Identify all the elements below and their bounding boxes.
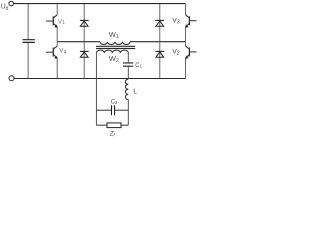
svg-text:V1: V1 [58, 18, 65, 26]
wire mid rail right [130, 41, 186, 43]
inductor L [125, 79, 128, 99]
svg-text:C1: C1 [135, 63, 142, 69]
transformer winding W1 (primary, scallops down) [100, 42, 130, 45]
capacitor Cd plates [23, 40, 35, 43]
diode D1 (V1 antiparallel) lead [83, 4, 85, 42]
diode D1 triangle [80, 21, 88, 26]
capacitor C2 plates [112, 105, 115, 115]
transformer core [96, 46, 135, 48]
svg-text:Ud: Ud [1, 4, 9, 12]
diode D2 (V2 antiparallel) lead [159, 42, 161, 79]
wire bottom rail [14, 78, 185, 80]
svg-text:V3: V3 [172, 18, 179, 26]
transistor V1 [46, 4, 58, 42]
svg-text:L: L [133, 88, 137, 95]
wire resistor branch right [121, 124, 128, 126]
diode D2 triangle [156, 52, 164, 57]
svg-text:V4: V4 [59, 48, 66, 56]
wire W2 right end down to C1 [127, 53, 129, 63]
wire C2 branch right [115, 109, 129, 111]
wire resistor branch left [96, 124, 107, 126]
terminal - (bottom input terminal) [9, 76, 14, 81]
wire top rail [14, 3, 186, 5]
capacitor C1 plates [123, 63, 133, 66]
diode D3 cathode bar [155, 19, 164, 21]
wire mid rail left (bridge output node A) [57, 41, 100, 43]
diode D4 cathode bar [80, 50, 89, 52]
transistor V3 (mirrored) [185, 4, 197, 42]
diode D1 cathode bar [80, 19, 89, 21]
wire inductor bottom to loop right column [127, 100, 129, 126]
capacitor C1 bottom lead [127, 67, 129, 79]
capacitor Cd (input filter) top lead [27, 4, 29, 40]
svg-text:W1: W1 [109, 30, 119, 40]
capacitor Cd bottom lead [27, 43, 29, 79]
diode D4 (V4 antiparallel) lead [83, 42, 85, 79]
transistor V2 (mirrored) [185, 42, 197, 79]
wire W2 left end down to load loop [95, 53, 97, 125]
resistor Zf box [107, 123, 121, 128]
wire C2 branch left [96, 109, 111, 111]
terminal + (top input terminal) [9, 1, 14, 6]
svg-text:Zf: Zf [109, 132, 116, 138]
diode D4 triangle [80, 52, 88, 57]
svg-text:W2: W2 [109, 54, 119, 64]
diode D3 triangle [156, 21, 164, 26]
diode D2 cathode bar [155, 50, 164, 52]
svg-text:C2: C2 [111, 99, 118, 105]
svg-text:V2: V2 [172, 49, 179, 57]
transistor V4 [46, 42, 58, 79]
transformer winding W2 (secondary, scallops up) [96, 50, 128, 53]
diode D3 (V3 antiparallel) lead [159, 4, 161, 42]
